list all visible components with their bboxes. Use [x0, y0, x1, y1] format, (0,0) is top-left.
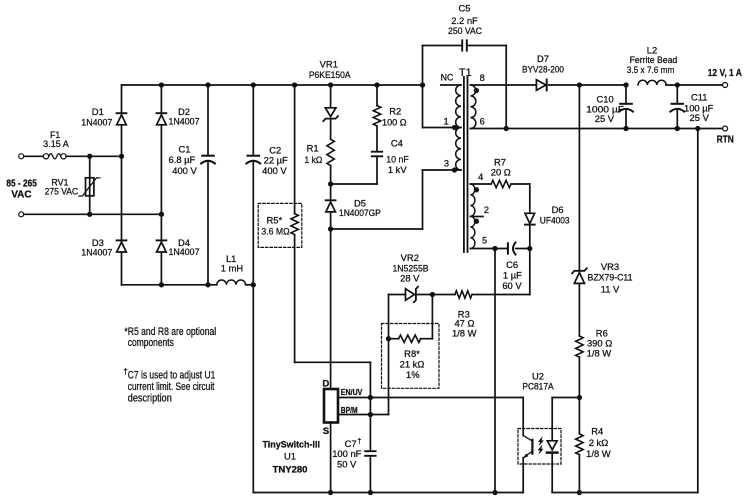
svg-text:P6KE150A: P6KE150A [309, 69, 351, 80]
svg-text:C6: C6 [506, 259, 518, 270]
svg-text:6.8 µF: 6.8 µF [169, 154, 196, 165]
svg-text:2 kΩ: 2 kΩ [589, 437, 609, 448]
svg-text:1 mH: 1 mH [221, 262, 243, 273]
svg-text:8: 8 [480, 73, 485, 83]
svg-text:UF4003: UF4003 [540, 215, 570, 226]
svg-text:current limit. See circuit: current limit. See circuit [128, 381, 215, 393]
svg-text:VAC: VAC [11, 189, 31, 200]
svg-text:3: 3 [444, 158, 449, 168]
svg-text:3.15 A: 3.15 A [43, 139, 69, 149]
svg-text:BZX79-C11: BZX79-C11 [588, 272, 633, 283]
svg-text:28 V: 28 V [400, 272, 420, 283]
svg-text:T1: T1 [459, 67, 472, 79]
svg-text:25 V: 25 V [595, 113, 615, 124]
svg-text:R5*: R5* [266, 214, 282, 225]
svg-text:3.6 MΩ: 3.6 MΩ [261, 226, 289, 237]
svg-text:R1: R1 [307, 143, 319, 154]
svg-text:22 µF: 22 µF [264, 155, 288, 166]
svg-text:VR1: VR1 [320, 59, 338, 70]
svg-text:RTN: RTN [717, 135, 734, 146]
svg-text:R2: R2 [389, 106, 401, 117]
svg-text:10 nF: 10 nF [386, 154, 409, 165]
svg-text:U1: U1 [284, 451, 296, 462]
svg-text:D7: D7 [537, 53, 549, 64]
svg-text:1N4007: 1N4007 [169, 246, 200, 257]
svg-text:50 V: 50 V [337, 458, 357, 469]
svg-text:C5: C5 [459, 3, 471, 14]
svg-text:components: components [128, 337, 174, 349]
svg-text:100 Ω: 100 Ω [382, 117, 407, 128]
svg-text:21 kΩ: 21 kΩ [400, 359, 425, 370]
svg-text:TinySwitch-III: TinySwitch-III [262, 438, 320, 449]
svg-text:TNY280: TNY280 [273, 463, 308, 474]
svg-text:85 - 265: 85 - 265 [6, 179, 37, 190]
svg-text:1N4007: 1N4007 [81, 247, 112, 258]
svg-text:1/8 W: 1/8 W [452, 327, 477, 338]
svg-text:6: 6 [480, 116, 485, 126]
svg-text:S: S [323, 426, 330, 437]
svg-text:1N4007: 1N4007 [81, 116, 112, 127]
svg-text:400 V: 400 V [262, 165, 287, 176]
svg-text:BYV28-200: BYV28-200 [522, 64, 564, 75]
svg-text:400 V: 400 V [172, 165, 197, 176]
svg-text:1/8 W: 1/8 W [587, 347, 612, 358]
svg-text:R8*: R8* [404, 348, 420, 359]
svg-text:D6: D6 [552, 204, 564, 215]
svg-text:description: description [128, 393, 172, 405]
svg-text:1/8 W: 1/8 W [586, 448, 611, 459]
svg-text:R4: R4 [591, 426, 603, 437]
svg-text:3.5 x 7.6 mm: 3.5 x 7.6 mm [627, 64, 675, 75]
svg-text:1N4007: 1N4007 [169, 115, 200, 126]
svg-text:1 kV: 1 kV [388, 164, 408, 175]
svg-text:BP/M: BP/M [341, 405, 358, 415]
svg-text:C11: C11 [691, 91, 708, 102]
svg-text:1%: 1% [406, 369, 420, 380]
svg-text:1 kΩ: 1 kΩ [304, 154, 322, 165]
svg-text:2: 2 [484, 205, 489, 215]
svg-text:VR2: VR2 [401, 252, 419, 263]
svg-text:20 Ω: 20 Ω [491, 167, 511, 178]
svg-text:12 V, 1 A: 12 V, 1 A [708, 68, 742, 79]
svg-text:EN/UV: EN/UV [341, 387, 363, 397]
svg-text:60 V: 60 V [502, 280, 522, 291]
svg-text:C7 is used to adjust U1: C7 is used to adjust U1 [128, 370, 216, 382]
svg-text:1N4007GP: 1N4007GP [339, 207, 381, 218]
svg-text:1: 1 [443, 116, 448, 126]
svg-text:NC: NC [441, 72, 454, 82]
svg-text:VR3: VR3 [601, 261, 619, 272]
svg-text:C1: C1 [179, 144, 191, 155]
svg-text:250 VAC: 250 VAC [448, 25, 482, 36]
svg-text:4: 4 [478, 172, 483, 182]
svg-text:275 VAC: 275 VAC [45, 187, 79, 197]
svg-text:†: † [357, 437, 361, 446]
svg-text:25 V: 25 V [690, 112, 710, 123]
svg-text:5: 5 [482, 236, 487, 246]
svg-text:C4: C4 [391, 138, 403, 149]
svg-text:D: D [322, 378, 329, 389]
svg-text:11 V: 11 V [601, 284, 620, 295]
svg-text:PC817A: PC817A [522, 380, 554, 391]
